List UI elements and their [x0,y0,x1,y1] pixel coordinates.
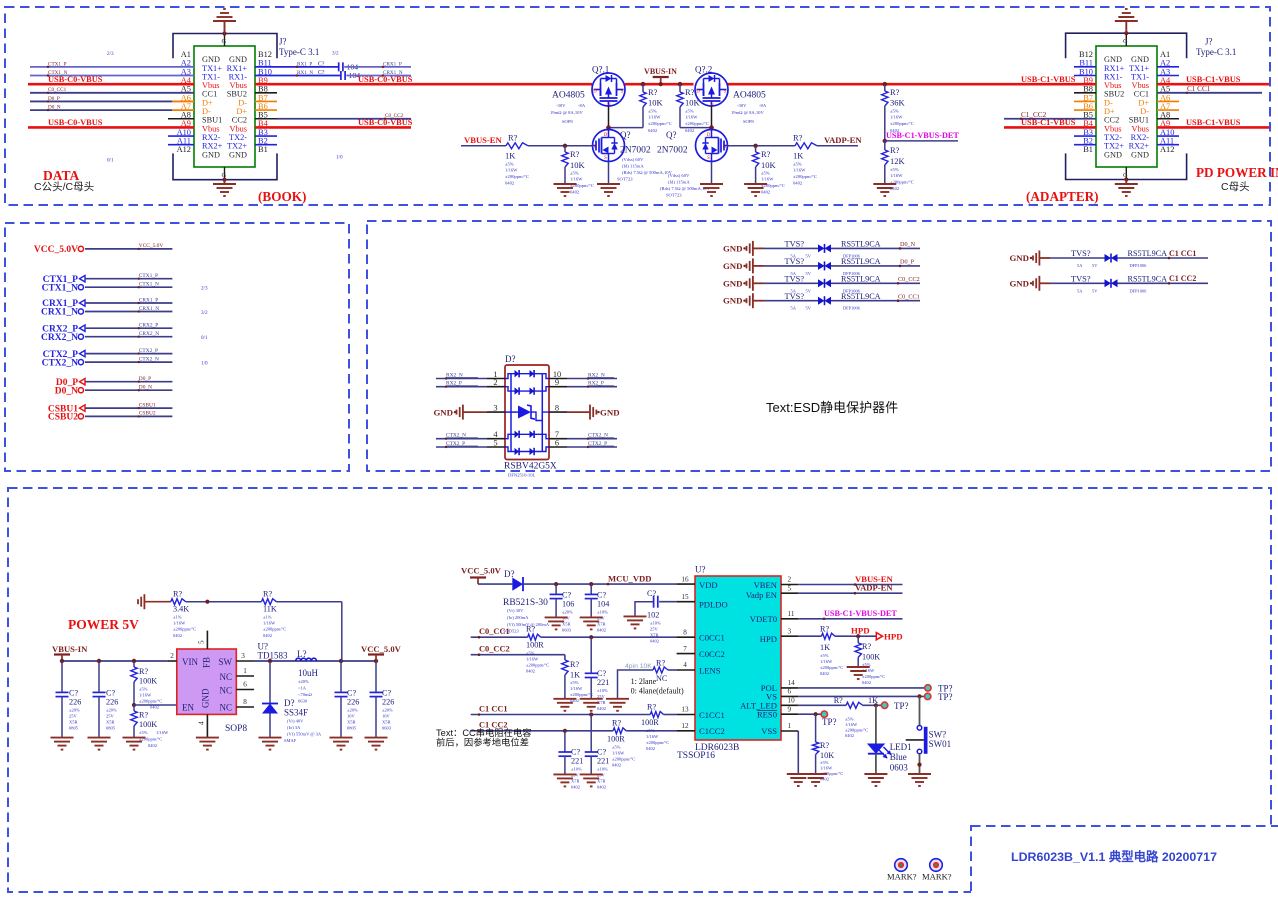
svg-text:5A: 5A [791,306,797,311]
svg-text:221: 221 [597,757,609,766]
svg-text:R?: R? [570,149,580,159]
svg-text:-30V: -30V [556,103,566,108]
connector J2 right (PD POWER IN) pin names [1104,55,1149,159]
svg-text:Q?.1: Q?.1 [592,65,609,75]
wire net RX2_N (ESD left) [436,373,487,380]
svg-text:0630: 0630 [298,699,308,704]
svg-text:R?: R? [648,87,658,97]
resistor R? 1K (VBUS-EN) [505,133,529,186]
ESD array D? body (RSBV42G5X) [505,354,549,460]
TVS diode D0_N GND side + label [723,240,818,259]
MCU U? body (LDR6023B) [695,565,781,741]
wire net USB-C0-VBUS trunk (left of Q1) [411,83,592,86]
U? left pin stubs/numbers [677,575,695,731]
svg-text:TX2-: TX2- [1104,133,1122,142]
pin stub B6 r [1074,109,1096,111]
svg-text:D0_N: D0_N [55,386,78,396]
power port VBUS-IN [644,67,677,86]
svg-text:0402: 0402 [173,633,182,638]
svg-text:±200ppm/°C: ±200ppm/°C [505,174,529,179]
ground ESD left (pin3) [433,405,487,420]
lane mark 3/2 [201,310,208,316]
svg-text:NC: NC [219,703,232,713]
svg-text:8: 8 [243,698,247,706]
svg-text:Vadp EN: Vadp EN [746,590,778,600]
wire net USB-C1-VBUS (pin B4) [1004,118,1096,128]
svg-text:RS5TL9CA: RS5TL9CA [841,257,881,266]
svg-text:X5R: X5R [106,720,115,725]
svg-text:C?: C? [597,591,606,600]
wire net C0_CC2 (TVS) [831,275,920,294]
ground below LED1 [864,774,887,786]
svg-text:0402: 0402 [820,671,829,676]
svg-text:±5%: ±5% [648,109,657,114]
fiducial MARK? 1 [887,859,917,882]
svg-text:VBEN: VBEN [754,580,778,590]
svg-text:0402: 0402 [650,639,659,644]
svg-text:VCC_5.0V: VCC_5.0V [361,644,402,654]
svg-text:USB-C0-VBUS: USB-C0-VBUS [48,118,103,127]
wire Q1 gate to R [606,106,643,130]
svg-text:±200ppm/°C: ±200ppm/°C [173,627,196,632]
svg-text:G: G [1123,38,1128,45]
wire VSS (pin1) [797,731,799,774]
svg-text:SOP8: SOP8 [225,724,247,734]
wire Q2 source to ground [711,162,713,185]
text 4pin 10K [625,663,652,670]
svg-text:R?: R? [508,133,518,143]
junction dot VBUS-EN/10K [563,144,567,148]
svg-text:±5%: ±5% [820,760,829,765]
wire Q2 gate to R [680,106,714,130]
svg-text:±5%: ±5% [570,171,579,176]
port D0_N [55,385,173,397]
svg-text:±5%: ±5% [820,653,829,658]
svg-text:100K: 100K [139,677,157,686]
wire net D0_P (TVS) [831,257,920,276]
wire VCC to diode [478,583,512,585]
svg-text:(ADAPTER): (ADAPTER) [1026,189,1099,204]
svg-text:(Io) 3A: (Io) 3A [287,725,301,730]
svg-text:C1CC2: C1CC2 [699,726,725,736]
sideways ground FB [138,594,171,609]
resistor R? 3.4K [171,590,196,639]
port HPD [876,632,902,642]
svg-text:5V: 5V [1092,263,1098,268]
fiducial MARK? 2 [922,859,952,882]
svg-text:100K: 100K [862,653,880,662]
svg-text:GND: GND [1009,278,1029,288]
svg-text:GND: GND [723,296,743,306]
designator Q? (right 2N7002) [657,130,711,198]
lane mark 2/3 [201,286,208,292]
svg-text:GND: GND [1009,253,1029,263]
svg-text:2N7002: 2N7002 [657,146,688,156]
svg-text:1: 1 [243,667,247,675]
TVS diode bowtie (C1 CC1) [1105,254,1118,263]
U? right pin stubs/numbers [781,576,798,731]
svg-text:1K: 1K [505,151,516,161]
designator Q? (left 2N7002) [617,130,673,182]
svg-text:±5%: ±5% [505,162,514,167]
svg-text:±10%: ±10% [571,767,582,772]
designator Q?.1 [592,65,609,75]
wire to pin 12 [626,730,676,732]
svg-text:10uH: 10uH [298,668,319,678]
wire VS (pin6) [798,694,924,698]
svg-text:RX1_N: RX1_N [297,70,313,76]
value RB521S-30 [503,598,550,634]
wire net RX2_P (ESD left) [436,381,487,388]
svg-text:C1 CC1: C1 CC1 [1169,249,1196,258]
capacitor C? 226 (out1) [335,661,360,738]
text (BOOK) [258,189,306,204]
port VCC_5.0V [34,243,172,255]
svg-text:TVS?: TVS? [785,275,805,284]
svg-text:5V: 5V [806,271,812,276]
text ESD note [766,400,898,415]
svg-text:2/3: 2/3 [201,286,208,292]
svg-text:C?: C? [562,591,571,600]
testpoint TP? (POL) [925,684,953,694]
svg-text:25V: 25V [69,714,78,719]
svg-text:221: 221 [597,678,609,687]
transistor Q?.2 (AO4805 P-MOSFET) [695,73,728,107]
svg-text:R?: R? [685,87,695,97]
svg-text:10V: 10V [382,714,391,719]
svg-text:C1 CC2: C1 CC2 [1169,274,1196,283]
ground below 100K [123,738,146,750]
svg-text:RX1+: RX1+ [1104,64,1125,73]
svg-text:C1 CC1: C1 CC1 [479,704,508,713]
svg-text:CRX1_P: CRX1_P [139,297,158,303]
wire EN to chip [134,704,177,706]
svg-text:0402: 0402 [612,763,621,768]
wire POL (pin14) [798,687,924,689]
svg-text:±200ppm/°C: ±200ppm/°C [862,674,885,679]
wire net MCU_VDD [523,573,677,586]
svg-text:0402: 0402 [646,746,655,751]
svg-text:C0_CC1: C0_CC1 [48,87,67,93]
svg-text:±20%: ±20% [69,708,80,713]
svg-text:100R: 100R [526,641,544,650]
wire Q1 source to ground [608,162,610,185]
ground below LENS R [606,699,629,711]
svg-text:TP?: TP? [938,692,953,702]
svg-text:TP?: TP? [894,701,909,711]
svg-text:3: 3 [788,627,792,635]
svg-text:104: 104 [597,600,609,609]
svg-text:(Vr) 30V: (Vr) 30V [507,608,524,613]
ground below VADP-EN pulldown [744,184,767,196]
svg-text:1/16W: 1/16W [612,751,625,756]
svg-text:5V: 5V [806,306,812,311]
svg-text:VBUS-IN: VBUS-IN [52,644,88,654]
svg-text:GND: GND [433,407,453,417]
svg-text:221: 221 [571,757,583,766]
svg-text:4pin 10K: 4pin 10K [625,663,652,670]
pin stub B11 r [1074,66,1096,68]
pin stub A7 r [1157,109,1179,111]
svg-text:SOP8: SOP8 [562,119,573,124]
capacitor C? 221 (C0CC1) [585,637,610,711]
svg-text:C1 CC1: C1 CC1 [1187,85,1211,93]
svg-text:RS5TL9CA: RS5TL9CA [841,275,881,284]
wire net USB-C1-VBUS-DET [885,131,960,141]
svg-text:±5%: ±5% [890,109,899,114]
resistor R? 100R (C1_CC2) [607,719,635,768]
wire VS down to switch [919,696,921,725]
svg-text:USB-C1-VBUS: USB-C1-VBUS [1021,75,1076,84]
wire FB node [186,600,262,604]
svg-text:CTX1_P: CTX1_P [139,273,158,279]
svg-text:0402: 0402 [845,733,854,738]
capacitor C? 226 (in2) [93,661,119,738]
svg-text:D-: D- [202,107,211,116]
svg-text:3/2: 3/2 [332,51,339,57]
connector J2 right (PD POWER IN) pin numbers [1079,50,1174,154]
svg-text:R?: R? [612,719,621,728]
designator J? (right) [1196,37,1236,58]
junction dot VBUS/R1 [641,82,646,87]
ground below C226 out1 [330,738,353,750]
svg-text:C?: C? [571,748,580,757]
designator Q?.2 [695,65,712,75]
svg-text:TX1-: TX1- [1131,72,1149,81]
svg-text:±5%: ±5% [890,167,899,172]
svg-text:C公头/C母头: C公头/C母头 [34,181,94,193]
ground (earth) below right connector [1115,180,1138,197]
svg-text:1/16W: 1/16W [761,177,774,182]
svg-text:RX2+: RX2+ [1129,142,1150,151]
wire net USB-C1-VBUS trunk (right of Q2) [727,83,1097,86]
svg-text:±1%: ±1% [173,615,182,620]
ground below TD1583 [196,738,219,750]
svg-text:±200ppm/°C: ±200ppm/°C [820,665,843,670]
svg-text:RX1_P: RX1_P [297,61,312,67]
svg-text:SOT723: SOT723 [617,177,633,182]
svg-text:0402: 0402 [526,669,535,674]
svg-text:RX1-: RX1- [1104,72,1123,81]
svg-text:B12: B12 [258,50,272,59]
wire net C0_CC2 [471,645,565,661]
pin stub B7 [255,100,277,102]
svg-text:TSSOP16: TSSOP16 [677,751,715,761]
right connector top G pin stem [1123,33,1128,46]
svg-text:D+: D+ [202,98,213,107]
svg-text:1/0: 1/0 [201,360,208,366]
pin stub A10 [168,135,194,137]
pin 2 (VIN) [168,652,177,661]
wire net VBUS-IN trunk (between Q1,Q2) [625,83,694,86]
svg-text:R?: R? [139,667,148,676]
svg-text:1K: 1K [793,151,804,161]
U? right pin names [740,580,778,736]
wire net CTX1_P (pin A2) [30,61,194,68]
wire net VBUS-EN (pin2) [798,574,902,586]
wire net USB-C1-VBUS (pin B9) [1020,75,1076,85]
TVS diode bowtie (C1 CC2) [1105,279,1118,288]
svg-text:G: G [594,145,598,150]
svg-text:C?: C? [318,70,325,76]
svg-text:USB-C0-VBUS: USB-C0-VBUS [358,118,413,127]
svg-text:15: 15 [681,593,689,601]
wire net CTX2_N (ESD left) [436,433,487,440]
text LDR6023B TSSOP16 [677,743,739,761]
svg-text:TX2-: TX2- [229,133,247,142]
wire ALT_LED to TP [863,703,881,707]
junction dot bottom shield [222,178,226,182]
svg-text:±20%: ±20% [382,708,393,713]
ground (earth) above right connector [1115,9,1138,33]
svg-text:14: 14 [788,679,796,687]
svg-text:X5R: X5R [347,720,356,725]
svg-text:C?: C? [597,669,606,678]
svg-text:36K: 36K [890,98,906,108]
svg-text:±200ppm/°C: ±200ppm/°C [793,174,817,179]
svg-text:0: 4lane(default): 0: 4lane(default) [631,687,684,696]
svg-text:R?: R? [862,642,871,651]
svg-text:RX2-: RX2- [1131,133,1150,142]
resistor R? 10K (VADP-EN pulldown) [752,146,784,195]
junction dot top shield [222,31,226,35]
frame: bottom main box [8,488,1271,892]
pin 1 (NC) [236,667,254,676]
pin stub A10 r [1157,135,1179,137]
svg-text:1/16W: 1/16W [820,766,833,771]
svg-text:B1: B1 [1083,145,1093,154]
ground below left 2N7002 [597,184,620,196]
pin stub B10 r [1074,75,1096,77]
pin 5 (FB) [198,631,208,649]
pin 3 (SW) [236,652,254,661]
svg-text:VBUS-IN: VBUS-IN [644,67,677,76]
svg-text:0402: 0402 [597,706,606,711]
svg-text:SW: SW [219,657,233,667]
svg-text:1/16W: 1/16W [505,168,518,173]
svg-text:TVS?: TVS? [785,292,805,301]
wire net C1 CC1 (TVS) [1118,249,1209,268]
svg-text:GND: GND [201,688,211,708]
svg-text:13: 13 [681,706,689,714]
svg-text:TX2+: TX2+ [1104,142,1124,151]
svg-text:前后，因参考地电位差: 前后，因参考地电位差 [436,737,529,748]
pin stub B2 [255,144,277,146]
svg-text:Vbus: Vbus [202,81,220,90]
svg-text:Type-C 3.1: Type-C 3.1 [279,47,319,57]
svg-text:C母头: C母头 [1221,181,1250,193]
lane marks left connector [107,51,343,164]
svg-text:DFP1006: DFP1006 [1130,288,1148,293]
resistor R? 100K (upper) [131,661,162,710]
text CC note [436,727,532,748]
svg-text:11K: 11K [263,605,277,614]
svg-text:±10%: ±10% [597,610,608,615]
svg-text:5V: 5V [806,288,812,293]
svg-text:3: 3 [493,404,497,413]
svg-text:11: 11 [788,610,795,618]
resistor R? 100R (C0_CC1) [526,625,549,674]
svg-text:R?: R? [526,625,535,634]
wire switch to ground [917,754,921,774]
svg-text:TX1+: TX1+ [1129,64,1149,73]
svg-text:1/16W: 1/16W [570,177,583,182]
junction dot bottom shield right [1124,177,1128,181]
text PD POWER IN [1196,165,1278,180]
svg-text:USB-C1-VBUS: USB-C1-VBUS [1186,75,1241,84]
right connector bottom shield bracket [1066,153,1187,179]
wire RES0 (pin9) [798,712,821,716]
capacitor C? 221 (C1CC1) [585,715,610,790]
svg-text:5V: 5V [806,253,812,258]
svg-text:RX2-: RX2- [202,133,221,142]
svg-text:1: 2lane: 1: 2lane [631,677,657,686]
regulator U? body (TD1583) [177,649,237,714]
wire net D0_P (pin A6) [30,96,194,103]
svg-text:RX1+: RX1+ [227,64,248,73]
wire SW output rail [254,659,378,663]
text SOP8 [225,724,247,734]
port CTX1_N [42,282,173,294]
wire net VADP-EN [817,135,862,146]
resistor R? 36K [882,84,914,141]
svg-text:D-: D- [238,98,247,107]
svg-text:POWER 5V: POWER 5V [68,617,139,632]
svg-text:0/1: 0/1 [201,335,208,341]
svg-text:C0CC1: C0CC1 [699,633,725,643]
svg-text:GND: GND [202,55,220,64]
ground below C104 [580,617,603,629]
value AO4805 (Q?.1) [550,91,586,125]
svg-text:RB521S-30: RB521S-30 [503,598,548,608]
svg-text:0805: 0805 [69,726,79,731]
resistor R? 1K (ALT_LED) [834,696,878,738]
svg-text:1/16W: 1/16W [173,621,186,626]
resistor R? 12K [882,141,914,191]
frame: top section box [5,7,1270,205]
svg-text:PD POWER IN: PD POWER IN [1196,165,1278,180]
svg-text:102: 102 [647,611,659,620]
svg-text:±20%: ±20% [106,708,117,713]
wire net CRX1_N [346,70,411,77]
svg-text:RS5TL9CA: RS5TL9CA [841,240,881,249]
left connector bottom G pin stem [222,167,227,180]
svg-text:C?: C? [597,748,606,757]
svg-text:0402: 0402 [597,785,606,790]
svg-text:(Vdss) 60V: (Vdss) 60V [622,157,644,162]
svg-text:GND: GND [1131,150,1149,159]
value AO4805 (Q?.2) [731,91,767,125]
svg-text:1/16W: 1/16W [685,115,698,120]
svg-text:R?: R? [834,696,843,705]
svg-text:1/16W: 1/16W [845,722,858,727]
svg-text:AO4805: AO4805 [733,91,766,101]
svg-text:10K: 10K [648,98,664,108]
svg-text:CRX1_N: CRX1_N [139,306,159,312]
svg-text:C?: C? [318,61,325,67]
svg-text:CTX2_N: CTX2_N [139,356,159,362]
svg-text:GND: GND [723,278,743,288]
capacitor C? 102 (PDLDO) [635,589,677,644]
svg-text:3.4K: 3.4K [173,605,189,614]
svg-text:25V: 25V [650,627,659,632]
svg-text:TP?: TP? [822,717,837,727]
svg-text:-30V: -30V [737,103,747,108]
wire net USB-C0-VBUS (pin B4) [255,118,413,128]
svg-text:RS5TL9CA: RS5TL9CA [1128,275,1168,284]
resistor R? 11K [262,590,287,639]
resistor R? 10K (Q2 gate) [677,84,709,133]
